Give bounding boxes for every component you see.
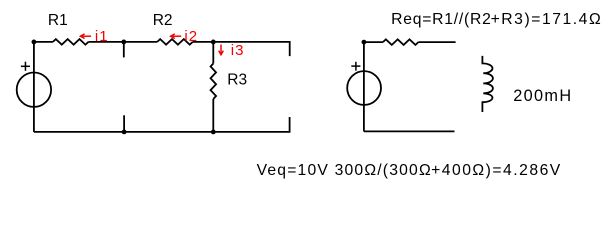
node: junction under R1/R2 (top, x=124) <box>121 40 126 45</box>
polarity + (left source) <box>21 62 30 71</box>
wire: top right segment with open terminal stub (x=290) <box>213 42 289 56</box>
wire: right circuit bottom rail <box>364 130 455 132</box>
resistor R3 <box>211 64 217 100</box>
svg-text:+400Ω)=4.286V: +400Ω)=4.286V <box>431 162 562 179</box>
wire: R3 bottom lead <box>212 99 214 132</box>
svg-text:Req=R1//(R2: Req=R1//(R2 <box>391 11 492 28</box>
inductor L 200mH <box>482 56 493 112</box>
voltage source (right) <box>347 71 381 105</box>
svg-text:Veq=10V 300Ω/(300Ω: Veq=10V 300Ω/(300Ω <box>257 162 432 179</box>
wire: R1 to middle node <box>88 41 123 43</box>
svg-text:R1: R1 <box>48 12 68 29</box>
node: bottom junction x=124 <box>122 130 127 135</box>
wire: left vertical branch (top node to bottom-left corner) <box>33 42 35 132</box>
node: top-left junction <box>32 40 37 45</box>
polarity + (right source) <box>351 62 360 71</box>
node: R3 top junction <box>211 40 216 45</box>
wire: bottom rail of left circuit <box>34 117 290 132</box>
current arrow i2 <box>171 34 182 39</box>
wire: top-left node to R1 <box>34 41 53 43</box>
wire: stub hanging below top node x=124 <box>123 42 125 58</box>
svg-text:R2: R2 <box>153 12 173 29</box>
wire: right top node to Req resistor <box>364 41 383 43</box>
current arrow i3 <box>219 45 224 55</box>
resistor R2 <box>157 39 193 45</box>
wire: right circuit vertical branch <box>363 42 365 131</box>
resistor Req <box>383 39 419 45</box>
svg-text:+R3)=171.4Ω: +R3)=171.4Ω <box>491 11 603 28</box>
wire: R2 to R3 top node <box>193 41 214 43</box>
voltage source (left) <box>17 73 51 107</box>
resistor R1 <box>53 39 89 45</box>
wire: stub rising above bottom node x=124 <box>123 115 125 132</box>
wire: middle node to R2 <box>124 41 157 43</box>
wire: Req resistor to open end <box>418 41 455 43</box>
equation label Req <box>391 11 602 28</box>
svg-text:R3: R3 <box>227 72 247 89</box>
node: right circuit top node <box>362 40 367 45</box>
svg-text:200mH: 200mH <box>513 87 572 105</box>
current arrow i1 <box>80 34 91 39</box>
node: R3 bottom junction <box>211 130 216 135</box>
equation label Veq <box>257 162 562 179</box>
svg-text:i3: i3 <box>231 42 245 59</box>
wire: R3 top lead <box>212 42 214 64</box>
